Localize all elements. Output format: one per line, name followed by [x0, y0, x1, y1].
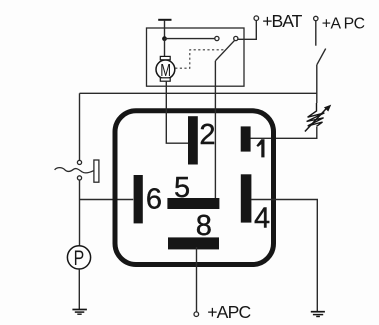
terminal +APC (top right) — [314, 16, 318, 20]
limit switch right contact — [234, 36, 238, 40]
svg-text:P: P — [74, 247, 85, 270]
wire junction dot to limit-switch left contact — [165, 38, 215, 40]
svg-text:M: M — [160, 60, 171, 80]
pin 6 — [134, 175, 143, 223]
wire pin 4 to ground — [251, 200, 317, 312]
wire +APC down to switch — [315, 21, 317, 46]
wire bus down to left switch — [79, 93, 81, 160]
ground (below P) — [72, 310, 87, 315]
svg-text:+A PC: +A PC — [322, 16, 365, 33]
terminal +BAT — [254, 16, 259, 21]
wire junction to pin 6 — [80, 199, 134, 201]
rheostat (variable resistor) — [305, 103, 331, 132]
limit switch left contact — [215, 36, 219, 40]
wire rheostat down and to pin 1 — [250, 127, 316, 138]
limit switch blade — [216, 41, 235, 61]
svg-text:5: 5 — [174, 172, 190, 204]
mechanical link (dashed) motor to limit switch — [175, 50, 224, 68]
wire junction dot to motor top brush — [164, 39, 166, 57]
node: junction dot — [162, 36, 167, 41]
svg-text:8: 8 — [196, 210, 212, 242]
svg-text:4: 4 — [254, 202, 270, 234]
wire +BAT to limit switch right contact — [238, 21, 256, 40]
wire motor to pin 2 — [166, 81, 188, 143]
svg-text:+BAT: +BAT — [262, 11, 302, 31]
motor M (circle with brushes) — [156, 56, 175, 81]
long bus wire (left switch to +APC branch) — [80, 92, 317, 94]
svg-text:6: 6 — [146, 184, 162, 216]
wiper motor assembly box — [147, 28, 245, 86]
ground (bottom right) — [311, 312, 325, 317]
wire pin 8 to +APC terminal — [196, 247, 198, 312]
ground (chassis bar above motor box) — [158, 19, 171, 21]
pressure sensor P — [67, 246, 90, 270]
pin 2 — [188, 116, 198, 164]
pin 5 — [167, 198, 219, 209]
wire switch to rheostat — [316, 65, 318, 103]
switch SW (right side) blade — [317, 49, 326, 65]
svg-text:2: 2 — [199, 119, 215, 151]
wire limit switch to pin 5 — [214, 61, 216, 198]
wire ground bar to junction dot — [164, 21, 166, 39]
pin 4 — [241, 174, 252, 222]
relay socket body — [115, 111, 274, 265]
pin 8 — [168, 237, 219, 249]
wire left switch down to junction — [79, 180, 81, 246]
svg-text:+APC: +APC — [207, 302, 251, 322]
terminal +APC (bottom) — [194, 312, 199, 317]
left sensor switch (two contacts + wavy actuator + sensor body) — [55, 160, 99, 182]
wire P to ground — [78, 269, 80, 309]
pin 1 — [241, 126, 251, 151]
